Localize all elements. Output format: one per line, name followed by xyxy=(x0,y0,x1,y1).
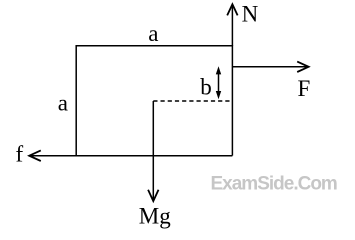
force Mg arrow xyxy=(152,101,154,201)
force F arrow xyxy=(232,66,308,68)
force N arrow xyxy=(231,5,233,46)
svg-text:N: N xyxy=(242,1,259,26)
block outline (left, top, right edges) xyxy=(76,46,232,156)
svg-text:b: b xyxy=(200,75,212,100)
svg-text:a: a xyxy=(58,91,68,116)
wire bottom edge with friction arrow shaft xyxy=(29,155,232,157)
force f arrowhead xyxy=(29,150,41,161)
dimension b double arrow xyxy=(218,71,220,94)
dashed line at height b xyxy=(153,100,232,102)
svg-text:f: f xyxy=(16,142,24,167)
svg-text:F: F xyxy=(298,76,311,101)
svg-text:Mg: Mg xyxy=(139,203,171,228)
svg-text:a: a xyxy=(148,21,158,46)
svg-text:ExamSide.Com: ExamSide.Com xyxy=(211,174,337,195)
